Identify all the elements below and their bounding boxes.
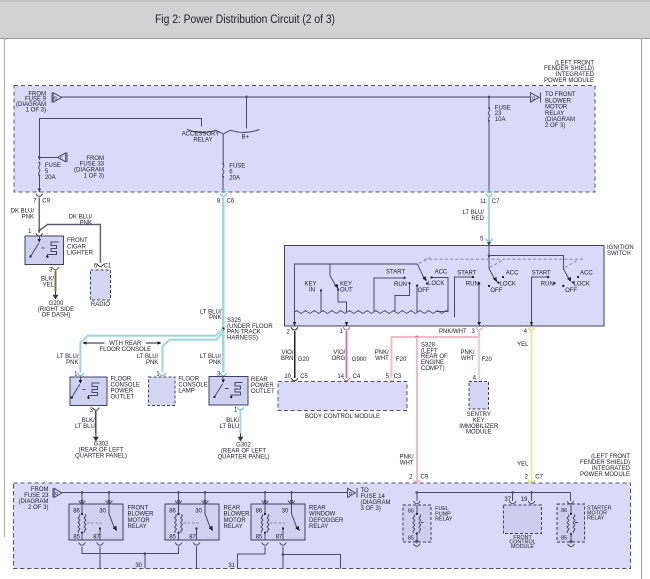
svg-text:MOTOR: MOTOR	[224, 518, 247, 524]
accessory relay center link	[216, 130, 231, 163]
switch 3 START bracket / output	[532, 277, 549, 322]
svg-text:POWER MODULE: POWER MODULE	[544, 78, 594, 84]
wire: pin 5 entry	[487, 242, 491, 256]
switch 1 ACC bracket	[432, 278, 449, 312]
integrated power module (bottom) label	[580, 454, 631, 478]
fuse F23	[488, 107, 490, 122]
svg-text:86: 86	[561, 508, 567, 514]
switch 1 START bracket	[374, 278, 405, 312]
svg-text:BLOWER: BLOWER	[545, 98, 572, 104]
svg-text:START: START	[386, 270, 405, 276]
label FRONT CONTROL MODULE	[509, 535, 535, 550]
relay link (dashed)	[87, 522, 104, 524]
wire: ignition feed to run/start wipers	[489, 256, 563, 269]
label LT BLU/RED	[463, 210, 485, 222]
svg-text:ACC: ACC	[506, 270, 519, 276]
svg-text:OF DASH): OF DASH)	[42, 313, 71, 319]
node: radio branch junction	[38, 229, 40, 231]
switch 3 RUN contact	[553, 282, 555, 284]
svg-text:RUN: RUN	[394, 282, 407, 288]
wire: relay1/relay2 85 collector	[82, 546, 179, 553]
node junction circuit 30	[144, 552, 147, 555]
wire: drop to FCM pin 37	[504, 493, 516, 504]
svg-text:RELAY: RELAY	[309, 524, 328, 530]
floor console outlet heating element	[88, 383, 99, 397]
wire: accessory bus (upper)	[295, 264, 418, 312]
node junctions on relay bus	[81, 491, 84, 494]
wire: relay3 85 circuit 31	[237, 546, 265, 568]
SECTION-IGN	[278, 329, 544, 492]
label FRONT BLOWER MOTOR RELAY	[128, 505, 155, 530]
svg-text:HARNESS): HARNESS)	[227, 336, 258, 342]
wire: BLK/LT BLU (floor console)	[95, 411, 97, 434]
wire: PNK/WHT ignition run output	[392, 331, 480, 378]
svg-text:MODULE: MODULE	[466, 430, 492, 436]
cigar lighter heating element	[47, 242, 58, 256]
svg-text:PNK: PNK	[22, 214, 34, 220]
svg-text:RUN: RUN	[541, 281, 554, 287]
svg-text:F20: F20	[396, 357, 407, 363]
wire: branch to floor console power outlet	[80, 329, 223, 373]
wire: relay3 87 branch	[283, 555, 341, 569]
svg-text:OFF: OFF	[490, 288, 502, 294]
sentry key immobilizer module box	[469, 382, 489, 410]
svg-text:30: 30	[99, 508, 106, 514]
switch 2 START bracket	[454, 277, 473, 317]
svg-text:FRONT: FRONT	[67, 238, 88, 244]
switch 1 RUN contact	[395, 283, 410, 312]
pin 6 C1 radio	[94, 264, 112, 270]
label PNK/WHT F20 (sentry)	[460, 350, 492, 363]
wire: DK BLU/PNK branch to radio	[39, 225, 100, 264]
wire: BLK/LT BLU (rear outlet)	[239, 411, 241, 434]
rear power outlet box	[209, 377, 248, 406]
label VIO/ORG G900	[332, 350, 368, 363]
svg-text:POWER MODULE: POWER MODULE	[580, 472, 630, 478]
svg-text:LIGHTER: LIGHTER	[67, 251, 94, 257]
svg-text:BODY CONTROL MODULE: BODY CONTROL MODULE	[305, 414, 380, 420]
svg-text:C4: C4	[353, 374, 361, 380]
svg-text:MOTOR: MOTOR	[128, 518, 151, 524]
SECTION-TOP	[11, 198, 275, 461]
wire: DK BLU/PNK from pin 7	[38, 198, 40, 234]
svg-text:WHT: WHT	[400, 460, 414, 466]
label PNK/WHT (bottom)	[399, 454, 413, 466]
svg-text:CIGAR: CIGAR	[67, 244, 87, 250]
mechanical link (dashed)	[419, 258, 585, 268]
svg-text:BLOWER: BLOWER	[128, 512, 155, 518]
svg-text:RELAY: RELAY	[224, 524, 243, 530]
wire: VIO/BRN	[294, 331, 296, 378]
ignition wiper 3	[563, 269, 571, 283]
svg-text:87: 87	[189, 534, 196, 540]
SECTION-BCM	[13, 454, 630, 569]
svg-text:B: B	[54, 96, 57, 101]
label FROM FUSE 23	[19, 487, 50, 511]
wire: drop to FCM pin 19	[521, 493, 535, 504]
floor console outlet switch	[71, 377, 86, 399]
pin 1 rear power outlet	[234, 407, 244, 413]
svg-text:10: 10	[284, 374, 291, 380]
svg-text:19: 19	[521, 497, 528, 503]
accessory relay contact right	[231, 130, 260, 133]
svg-text:B+: B+	[242, 134, 250, 140]
pin 3 ignition	[471, 327, 482, 335]
svg-text:20A: 20A	[45, 175, 56, 181]
resistive track (zigzag bus)	[295, 311, 449, 314]
svg-text:30: 30	[195, 508, 202, 514]
pin 4 sentry key module	[473, 376, 483, 382]
wire: bus drop to pin 86	[81, 493, 83, 501]
left frame border	[4, 39, 6, 537]
svg-text:ACC: ACC	[580, 270, 593, 276]
accessory relay contact left	[187, 130, 216, 133]
label SENTRY KEY IMMOBILIZER MODULE	[459, 412, 499, 436]
label BLK/LT BLU (rear outlet)	[220, 418, 240, 430]
wire: accessory distribution line	[417, 492, 571, 494]
label ACCESSORY RELAY	[182, 132, 220, 144]
svg-text:LOCK: LOCK	[574, 281, 590, 287]
svg-text:WHT: WHT	[375, 356, 389, 362]
svg-text:START: START	[532, 270, 551, 276]
switch 1 labels	[386, 270, 448, 294]
switch 1 OFF contact	[416, 286, 418, 312]
ignition wiper 2	[489, 269, 497, 283]
integrated power module (top) label	[544, 60, 595, 84]
pin 4 ignition	[524, 327, 535, 335]
wire: fuse 23 drop	[488, 97, 490, 107]
rear power outlet heating element	[231, 382, 242, 396]
rear power outlet switch	[213, 377, 228, 399]
label VIO/BRN G20	[281, 350, 310, 363]
connector arrow C	[38, 153, 67, 162]
svg-text:G900: G900	[352, 357, 367, 363]
switch 1 LOCK contact	[426, 282, 428, 284]
svg-text:20A: 20A	[229, 175, 240, 181]
svg-text:SWITCH: SWITCH	[607, 251, 631, 257]
right frame border	[641, 39, 643, 579]
switch 3 ACC contact	[577, 276, 579, 278]
svg-text:C9: C9	[42, 198, 50, 204]
svg-text:IN: IN	[309, 288, 315, 294]
front control module box	[504, 505, 542, 534]
label IGNITION SWITCH	[607, 245, 634, 257]
svg-text:87: 87	[93, 534, 100, 540]
title bar	[0, 0, 650, 38]
switch 2 ACC contact	[502, 276, 504, 278]
wire: relay2 87 down	[196, 546, 198, 568]
front cigar lighter box	[25, 236, 63, 265]
svg-text:PNK/WHT: PNK/WHT	[439, 329, 467, 335]
wire: PNK/WHT main feed down	[416, 337, 418, 493]
svg-text:86: 86	[256, 508, 263, 514]
wire: circuit 30 down	[144, 554, 146, 569]
annotation WTH REAR FLOOR CONSOLE	[82, 341, 161, 353]
wire: VIO/ORG	[346, 331, 348, 378]
label LT BLU/PNK (lamp)	[137, 354, 159, 366]
pin 2 ignition	[286, 327, 297, 335]
relay coil	[81, 504, 83, 514]
wire: ignition output 2	[293, 312, 297, 326]
pin 1 floor console power outlet	[74, 371, 84, 377]
svg-text:YEL: YEL	[517, 342, 529, 348]
ground G302 (rear outlet)	[238, 434, 244, 442]
wire: accessory relay feed	[39, 119, 201, 160]
svg-text:14: 14	[337, 374, 344, 380]
svg-text:85: 85	[256, 534, 263, 540]
pin 14 C4	[337, 374, 361, 381]
svg-text:REAR: REAR	[309, 505, 326, 511]
svg-text:RELAY: RELAY	[128, 524, 147, 530]
svg-text:FRONT: FRONT	[128, 505, 149, 511]
wire: ignition output 1	[345, 322, 349, 326]
wire: PNK/WHT to sentry key module	[478, 337, 480, 379]
svg-text:ACC: ACC	[435, 270, 448, 276]
node junction (ignition feed)	[488, 254, 491, 257]
svg-text:37: 37	[504, 497, 511, 503]
node junction at B+ drop	[245, 96, 248, 99]
label LT BLU/PNK (above S325)	[200, 309, 222, 321]
label TO FRONT BLOWER MOTOR RELAY	[545, 92, 576, 129]
svg-text:PNK: PNK	[66, 360, 78, 366]
switch 2 labels	[457, 270, 519, 294]
pin 2 C9 (bottom)	[409, 474, 429, 482]
svg-text:87: 87	[276, 534, 283, 540]
wire: branch to floor console lamp	[163, 332, 224, 372]
svg-text:Fig 2: Power Distribution Circ: Fig 2: Power Distribution Circuit (2 of …	[155, 14, 335, 26]
label STARTER MOTOR RELAY	[587, 505, 612, 521]
svg-text:PNK: PNK	[80, 220, 92, 226]
pin 10 C5	[284, 374, 308, 381]
svg-text:PNK: PNK	[209, 315, 221, 321]
svg-text:1 OF 3): 1 OF 3)	[26, 107, 46, 113]
pin 8 C6 exit	[217, 189, 235, 205]
wire: B+ feed bus	[62, 96, 531, 98]
svg-text:30: 30	[135, 563, 142, 569]
svg-text:86: 86	[73, 508, 80, 514]
rear blower motor relay	[165, 493, 219, 546]
svg-text:WINDOW: WINDOW	[309, 512, 336, 518]
front blower motor relay	[69, 493, 123, 546]
switch 2 RUN contact / output	[478, 283, 480, 322]
relay box	[69, 504, 123, 540]
svg-text:RED: RED	[471, 216, 484, 222]
svg-text:3 OF 3): 3 OF 3)	[361, 506, 381, 512]
fuse F6	[222, 163, 224, 178]
label FUEL PUMP RELAY	[435, 506, 453, 522]
node junctions on distribution line	[416, 491, 419, 494]
svg-text:REAR: REAR	[224, 505, 241, 511]
svg-text:(DIAGRAM: (DIAGRAM	[545, 117, 575, 123]
label FROM FUSE 33	[74, 156, 105, 180]
label FUSE 23 10A	[495, 105, 511, 123]
label FUSE 6 20A	[229, 164, 245, 182]
svg-text:31: 31	[228, 563, 235, 569]
svg-text:C7: C7	[492, 199, 500, 205]
svg-text:RELAY: RELAY	[587, 516, 605, 522]
ground G200	[53, 292, 59, 300]
pin 7 C9 exit	[33, 189, 50, 205]
svg-text:TO FRONT: TO FRONT	[545, 92, 576, 98]
wire: relay1 87 down	[99, 546, 101, 568]
svg-text:86: 86	[408, 508, 414, 514]
svg-text:START: START	[457, 270, 476, 276]
svg-text:RUN: RUN	[466, 281, 479, 287]
svg-text:COMPT): COMPT)	[421, 366, 445, 372]
wire: relay feed bus	[62, 492, 348, 494]
fuse F5	[38, 162, 40, 177]
svg-text:LT BLU: LT BLU	[220, 424, 240, 430]
pin 2 C7 (bottom)	[525, 474, 544, 482]
svg-text:C7: C7	[535, 474, 543, 480]
pin 5 C3	[386, 374, 402, 381]
node junction relay3 87	[282, 553, 285, 556]
ignition switch box	[285, 246, 605, 326]
svg-text:85: 85	[408, 536, 414, 542]
svg-text:BLOWER: BLOWER	[224, 512, 251, 518]
ground G302 (floor console)	[93, 434, 99, 442]
floor console power outlet box	[70, 377, 107, 406]
node: FROM FUSE 9 label	[16, 91, 47, 113]
svg-text:OFF: OFF	[565, 288, 577, 294]
svg-text:PNK: PNK	[209, 360, 221, 366]
rear window defogger relay	[251, 493, 305, 546]
integrated power module box (bottom)	[13, 483, 630, 568]
connector arrow (to fuse 14)	[348, 488, 357, 498]
label REAR WINDOW DEFOGGER RELAY	[309, 505, 344, 530]
svg-text:LT BLU: LT BLU	[75, 424, 95, 430]
svg-text:2 OF 3): 2 OF 3)	[545, 123, 565, 129]
splice S325	[222, 328, 225, 331]
node junction at fuse 23 drop	[488, 96, 491, 99]
wire: LT BLU/PNK main (C6 down)	[222, 198, 224, 373]
cigar lighter switch	[29, 236, 44, 258]
SECTION-MID	[285, 198, 634, 336]
switch 2 LOCK contact	[497, 281, 499, 283]
wire: LT BLU/RED (fuse 23 to ignition)	[488, 198, 490, 246]
key-out switch	[330, 264, 353, 312]
body control module box	[278, 381, 407, 410]
switch 2 OFF contact	[488, 285, 490, 287]
wire: ignition output 4 arrowhead	[530, 322, 534, 326]
svg-text:QUARTER PANEL): QUARTER PANEL)	[75, 453, 127, 459]
svg-text:OUTLET: OUTLET	[111, 394, 135, 400]
wire: bus drop to pin 30	[108, 493, 110, 501]
label LT BLU/PNK (outlet)	[57, 354, 79, 366]
wire: B+ terminal drop	[246, 97, 248, 129]
svg-text:RELAY: RELAY	[435, 517, 453, 523]
svg-text:MODULE: MODULE	[511, 544, 534, 550]
fuel pump relay	[403, 493, 431, 547]
svg-text:85: 85	[561, 535, 567, 541]
floor console lamp box	[149, 377, 176, 406]
svg-text:C5: C5	[300, 374, 308, 380]
ignition wiper 1	[417, 264, 426, 282]
label FLOOR CONSOLE LAMP	[178, 377, 207, 395]
wire: BLK/YEL	[55, 271, 57, 292]
svg-text:1 OF 3): 1 OF 3)	[84, 174, 104, 180]
svg-text:C3: C3	[394, 374, 402, 380]
pin 1 ignition	[339, 327, 349, 335]
svg-text:RADIO: RADIO	[91, 302, 110, 308]
svg-text:G20: G20	[298, 357, 310, 363]
svg-text:ORG: ORG	[332, 356, 346, 362]
svg-text:WHT: WHT	[461, 356, 475, 362]
pin 5 ignition switch	[480, 236, 492, 242]
svg-text:30: 30	[282, 508, 289, 514]
pin 3 cigar lighter	[49, 267, 59, 273]
pin 3 floor console power outlet	[89, 408, 99, 414]
svg-text:YEL: YEL	[43, 282, 55, 288]
pin 3 rear power outlet	[217, 371, 227, 377]
pin 11 C7 exit	[480, 189, 500, 205]
wire: YEL ignition start output	[530, 331, 532, 493]
svg-text:2 OF 3): 2 OF 3)	[28, 505, 48, 511]
svg-text:85: 85	[169, 534, 176, 540]
svg-text:C1: C1	[104, 264, 112, 270]
splice S328	[415, 336, 418, 339]
pin 1 floor console lamp	[156, 371, 166, 377]
label LT BLU/PNK (rear outlet)	[200, 354, 222, 366]
label TO FUSE 14	[361, 488, 391, 512]
label FLOOR CONSOLE POWER OUTLET	[111, 377, 140, 401]
switch 3 LOCK contact	[572, 281, 574, 283]
svg-text:PNK: PNK	[146, 360, 158, 366]
wire: relay3 87 down	[282, 546, 284, 568]
connector arrow B	[52, 92, 62, 102]
svg-text:10A: 10A	[495, 117, 506, 123]
relay switch	[108, 504, 110, 514]
svg-text:LOCK: LOCK	[500, 281, 516, 287]
svg-text:11: 11	[480, 199, 487, 205]
svg-text:RELAY: RELAY	[545, 111, 564, 117]
label PNK/WHT F20 (bcm)	[375, 350, 407, 363]
label BLK/LT BLU (floor console)	[75, 418, 95, 430]
connector arrow to front blower motor relay	[531, 92, 541, 102]
switch 3 labels	[532, 270, 594, 294]
svg-text:DEFOGGER: DEFOGGER	[309, 518, 344, 524]
switch 3 OFF contact	[562, 285, 564, 287]
svg-text:C9: C9	[421, 474, 429, 480]
svg-text:RELAY: RELAY	[193, 138, 212, 144]
label DK BLU/PNK (radio branch)	[69, 214, 93, 226]
svg-text:85: 85	[73, 534, 80, 540]
svg-text:OUTLET: OUTLET	[251, 389, 275, 395]
pin 1 cigar lighter	[28, 229, 43, 236]
svg-text:MOTOR: MOTOR	[545, 105, 568, 111]
connector arrow D (from fuse 23)	[53, 488, 62, 498]
label REAR BLOWER MOTOR RELAY	[224, 505, 251, 530]
label FRONT CIGAR LIGHTER	[67, 238, 94, 256]
svg-text:QUARTER PANEL): QUARTER PANEL)	[217, 455, 269, 461]
svg-text:FLOOR CONSOLE: FLOOR CONSOLE	[99, 347, 151, 353]
pins bottom	[79, 543, 86, 546]
svg-text:C6: C6	[227, 198, 235, 204]
svg-text:BRN: BRN	[281, 356, 294, 362]
svg-text:LOCK: LOCK	[428, 281, 444, 287]
wire: ignition output 3 arrowhead	[477, 322, 481, 326]
label FUSE 5 20A	[45, 163, 61, 181]
radio module box	[91, 270, 111, 300]
label REAR POWER OUTLET	[251, 377, 275, 395]
integrated power module box (top)	[14, 86, 595, 193]
svg-text:OUT: OUT	[340, 288, 353, 294]
label BLK/YEL	[41, 276, 55, 288]
svg-text:YEL: YEL	[517, 462, 529, 468]
svg-text:OFF: OFF	[418, 288, 430, 294]
svg-text:F20: F20	[482, 357, 493, 363]
svg-text:LAMP: LAMP	[178, 388, 194, 394]
